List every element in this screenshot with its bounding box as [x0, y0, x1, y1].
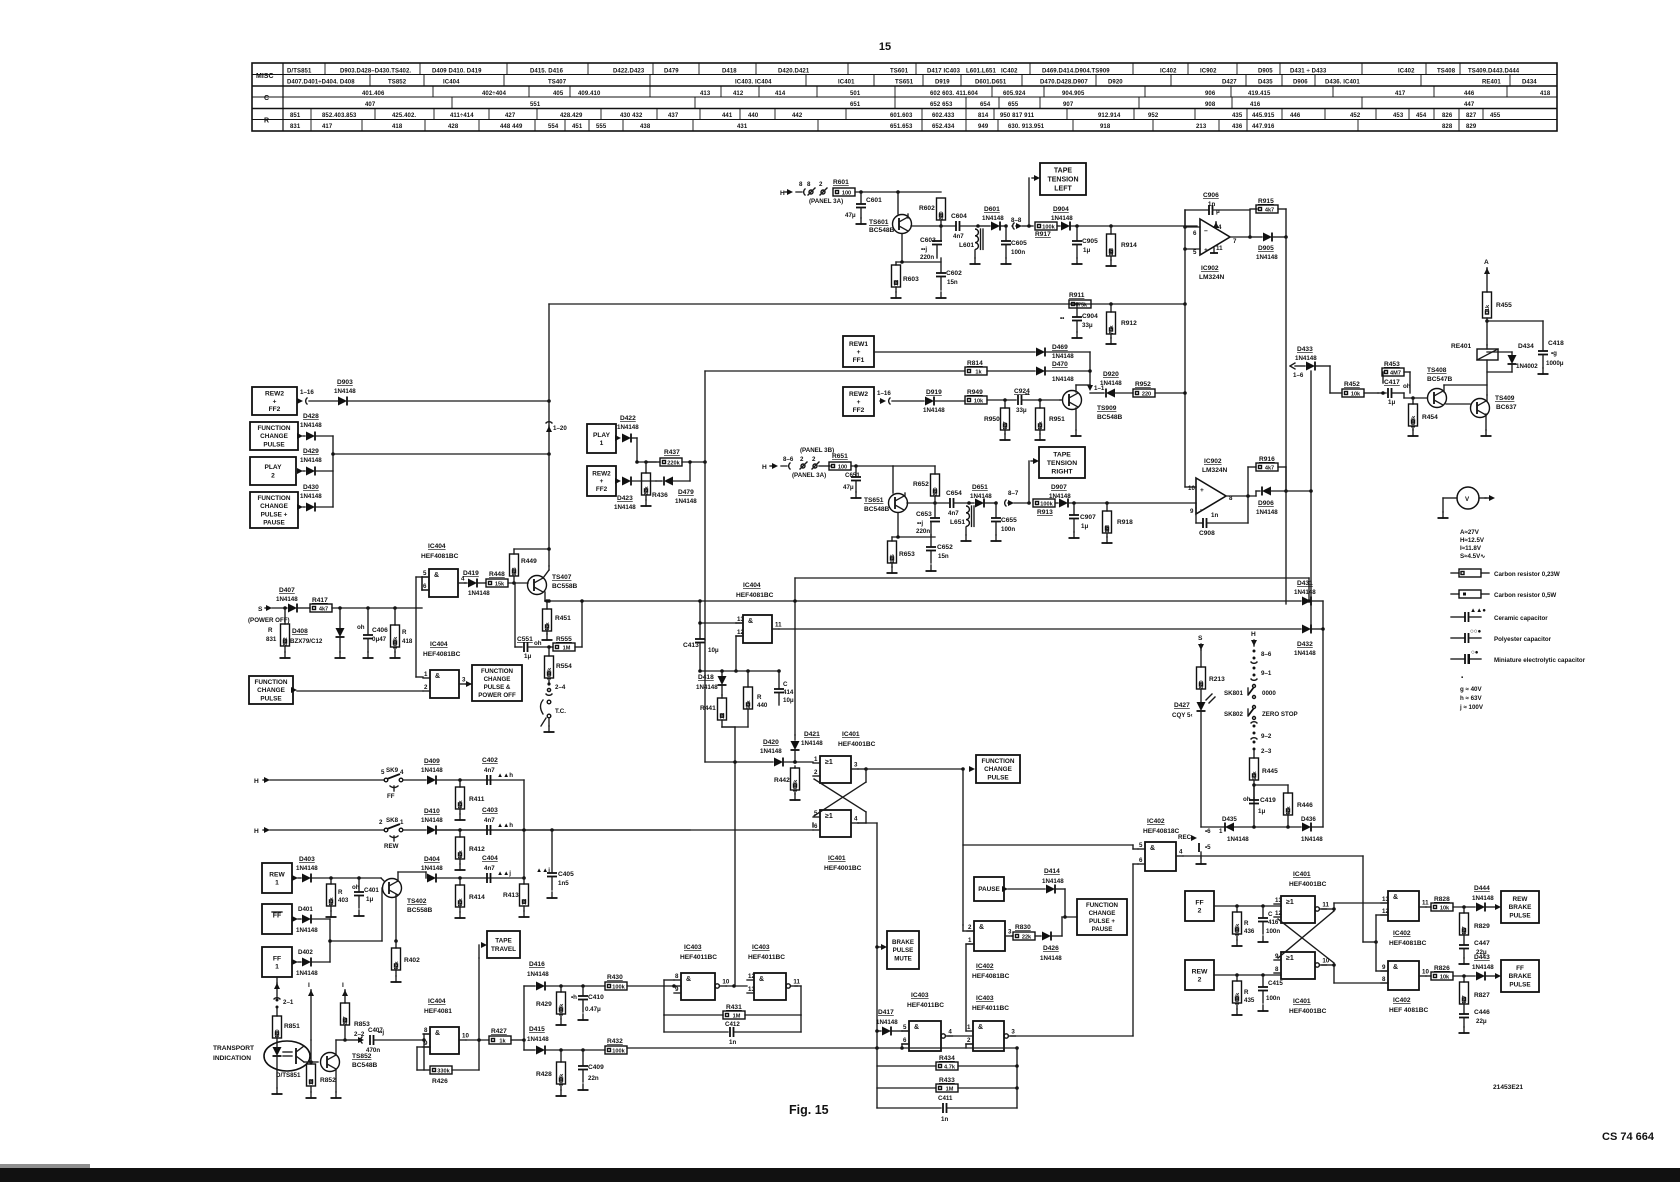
svg-text:R916: R916 — [1259, 456, 1275, 463]
resistor R555 1M — [549, 646, 553, 648]
svg-text:401.406: 401.406 — [362, 91, 385, 97]
resistor R418 100k — [393, 606, 397, 610]
svg-text:416: 416 — [1268, 919, 1279, 926]
resistor R652 220 — [931, 474, 940, 497]
svg-text:CHANGE: CHANGE — [260, 433, 288, 440]
svg-text:D407: D407 — [279, 587, 295, 594]
svg-text:BC548B: BC548B — [864, 506, 890, 513]
svg-text:TS407: TS407 — [552, 574, 572, 581]
svg-text:1M: 1M — [733, 1013, 741, 1019]
svg-text:446: 446 — [1290, 113, 1301, 119]
svg-text:I: I — [308, 982, 310, 989]
diode D410 1N4148 — [427, 826, 436, 835]
wire to tape tension left — [1027, 224, 1031, 228]
svg-text:1M: 1M — [563, 645, 571, 651]
svg-text:1n: 1n — [941, 1116, 948, 1123]
long wire TS407 emitter row — [545, 600, 1301, 602]
svg-text:442: 442 — [792, 113, 803, 119]
svg-text:R949: R949 — [967, 389, 983, 396]
svg-text:D409 D410. D419: D409 D410. D419 — [432, 69, 482, 75]
resistor R412 47k — [458, 828, 462, 832]
resistor R828 10k — [1426, 906, 1431, 908]
svg-text:BRAKE: BRAKE — [1509, 904, 1532, 911]
inductor L651 — [967, 501, 971, 505]
svg-text:1N4148: 1N4148 — [1052, 353, 1074, 360]
capacitor C410 0.47u — [581, 984, 585, 988]
svg-text:R915: R915 — [1258, 198, 1274, 205]
svg-text:22k: 22k — [644, 485, 650, 495]
svg-text:0000: 0000 — [1262, 690, 1276, 697]
svg-text:TENSION: TENSION — [1047, 176, 1078, 183]
svg-text:1: 1 — [814, 756, 818, 763]
svg-text:≥1: ≥1 — [1286, 899, 1294, 906]
diode D431 1N4148 — [1302, 597, 1311, 606]
svg-text:C412: C412 — [725, 1021, 740, 1028]
wire op-amp1 inputs — [1185, 226, 1200, 228]
svg-text:+: + — [857, 349, 861, 356]
diode D428 1N4148 — [303, 435, 305, 437]
svg-text:2: 2 — [800, 456, 804, 463]
svg-text:IC402: IC402 — [1160, 69, 1177, 75]
wire D906 to bus — [1286, 490, 1311, 492]
svg-text:IC402: IC402 — [1393, 997, 1411, 1004]
svg-text:5: 5 — [903, 1024, 907, 1031]
svg-text:418: 418 — [392, 124, 403, 130]
box FF 1 — [262, 947, 292, 977]
resistor R651 100 — [829, 462, 851, 470]
wire TS601 collector row — [907, 214, 909, 218]
box FUNCTION CHANGE PULSE + PAUSE small — [1077, 899, 1127, 935]
svg-text:•h: •h — [571, 994, 577, 1001]
svg-text:CQY 5‹: CQY 5‹ — [1172, 712, 1193, 719]
svg-text:BC548B: BC548B — [1097, 414, 1123, 421]
svg-text:oh: oh — [534, 640, 542, 647]
legend ceramic capacitor — [1451, 607, 1486, 622]
svg-text:R213: R213 — [1209, 676, 1225, 683]
svg-text:10: 10 — [1422, 969, 1429, 976]
svg-text:R412: R412 — [469, 846, 485, 853]
resistor R428 100k — [559, 1048, 563, 1052]
diode D415 1N4148 — [524, 1049, 535, 1051]
svg-text:22n: 22n — [588, 1075, 599, 1082]
svg-text:1N4148: 1N4148 — [527, 971, 549, 978]
svg-text:CHANGE: CHANGE — [1089, 910, 1116, 917]
svg-text:SK801: SK801 — [1224, 690, 1243, 697]
svg-text:REW: REW — [1192, 968, 1208, 975]
wire long row y827 to latch pin6 — [437, 829, 813, 831]
svg-text:75k: 75k — [1078, 302, 1088, 308]
svg-text:47k: 47k — [458, 849, 464, 859]
resistor R601 — [833, 188, 855, 196]
svg-text:≥1: ≥1 — [825, 813, 833, 820]
svg-text:H: H — [780, 190, 785, 197]
svg-text:C602: C602 — [946, 270, 962, 277]
resistor R213 220 — [1197, 667, 1206, 690]
capacitor C601 47u — [860, 192, 862, 203]
svg-text:2–2: 2–2 — [354, 1031, 365, 1038]
svg-text:906: 906 — [1205, 91, 1216, 97]
svg-text:HEF4011BC: HEF4011BC — [907, 1002, 944, 1009]
wire between gates + top vertical — [726, 985, 747, 987]
capacitor C904 33u — [1075, 302, 1079, 306]
svg-text:D429: D429 — [303, 448, 319, 455]
svg-text:TS408: TS408 — [1427, 367, 1447, 374]
svg-text:IC403: IC403 — [684, 944, 702, 951]
capacitor C414 10u — [778, 671, 780, 688]
svg-text:1N4148: 1N4148 — [296, 865, 318, 872]
svg-text:LEFT: LEFT — [1054, 185, 1072, 192]
capacitor C412 1n — [663, 1015, 665, 1032]
svg-text:47k: 47k — [545, 621, 551, 631]
svg-text:D415. D416: D415. D416 — [530, 69, 564, 75]
svg-text:1M: 1M — [1105, 525, 1111, 533]
svg-text:REW: REW — [384, 843, 399, 850]
svg-text:oh: oh — [1243, 796, 1251, 803]
box FUNCTION CHANGE PULSE bottom-left — [249, 676, 293, 704]
svg-text:1–16: 1–16 — [877, 390, 891, 397]
diode D421 1N4148 — [794, 735, 796, 740]
svg-text:C603: C603 — [920, 237, 936, 244]
wire gate out to right — [1183, 855, 1363, 857]
svg-text:1N4148: 1N4148 — [1040, 955, 1062, 962]
wire to C418 — [1487, 320, 1543, 322]
svg-text:C908: C908 — [1199, 530, 1215, 537]
svg-text:h ≈ 63V: h ≈ 63V — [1460, 695, 1482, 702]
svg-text:D410: D410 — [424, 808, 440, 815]
wire junction column — [637, 461, 656, 463]
svg-text:(PANEL 3A): (PANEL 3A) — [792, 472, 826, 479]
svg-text:R436: R436 — [652, 492, 668, 499]
svg-text:R554: R554 — [556, 663, 572, 670]
svg-text:D906: D906 — [1293, 80, 1308, 86]
svg-text:D431 ÷ D433: D431 ÷ D433 — [1290, 69, 1327, 75]
svg-text:1: 1 — [1219, 828, 1223, 835]
svg-text:R417: R417 — [312, 597, 328, 604]
svg-text:REW2: REW2 — [849, 391, 868, 398]
svg-text:C415: C415 — [1268, 980, 1283, 987]
svg-text:100k: 100k — [1040, 501, 1053, 507]
svg-text:D904: D904 — [1053, 206, 1069, 213]
svg-text:2: 2 — [1198, 976, 1202, 983]
box TAPE TENSION RIGHT — [1039, 447, 1085, 478]
svg-text:TS601: TS601 — [869, 219, 889, 226]
resistor R949 10k — [965, 396, 987, 404]
resistor R952 220 — [1133, 389, 1155, 397]
transistor TS909 BC548B — [1063, 391, 1082, 410]
svg-text:551: 551 — [530, 102, 541, 108]
svg-text:FUNCTION: FUNCTION — [1086, 902, 1118, 909]
svg-text:LM324N: LM324N — [1202, 467, 1228, 474]
svg-text:RE401: RE401 — [1451, 343, 1471, 350]
svg-text:D419: D419 — [463, 570, 479, 577]
capacitor C655 100n — [994, 501, 998, 505]
svg-text:TS408: TS408 — [1437, 69, 1456, 75]
svg-text:S≈4.5V∿: S≈4.5V∿ — [1460, 553, 1485, 560]
svg-text:9–2: 9–2 — [1261, 733, 1272, 740]
capacitor C418 1000u electrolytic — [1538, 351, 1548, 355]
svg-text:D415: D415 — [529, 1026, 545, 1033]
box REW BRAKE PULSE — [1501, 891, 1539, 923]
diode D422 1N4148 — [622, 434, 631, 443]
bottom black bar — [0, 1168, 1680, 1182]
svg-text:1N4148: 1N4148 — [1301, 836, 1323, 843]
svg-text:33μ: 33μ — [1016, 407, 1027, 414]
svg-text:TS601: TS601 — [890, 69, 909, 75]
diode D903 1N4148 — [338, 397, 347, 406]
svg-text:1N4148: 1N4148 — [296, 970, 318, 977]
svg-text:3: 3 — [462, 677, 466, 684]
svg-text:R602: R602 — [919, 205, 935, 212]
svg-text:μ: μ — [1216, 208, 1220, 215]
svg-text:R914: R914 — [1121, 242, 1137, 249]
svg-text:4k7: 4k7 — [1462, 995, 1468, 1004]
capacitor C413 10u — [699, 601, 701, 638]
svg-text:HEF 4081BC: HEF 4081BC — [1389, 1007, 1428, 1014]
resistor R445 56k — [1250, 758, 1259, 781]
svg-text:R454: R454 — [1422, 414, 1438, 421]
resistor R429 100k — [559, 984, 563, 988]
svg-text:1N4148: 1N4148 — [300, 493, 322, 500]
capacitor C416 100n — [1261, 904, 1265, 908]
svg-text:FF2: FF2 — [269, 406, 281, 413]
svg-text:R913: R913 — [1037, 509, 1053, 516]
svg-text:R453: R453 — [1384, 361, 1400, 368]
diode D430 1N4148 — [303, 506, 305, 508]
capacitor C653 220n — [934, 503, 936, 517]
svg-text:REC: REC — [1178, 834, 1192, 841]
diode D435 1N4148 — [1225, 823, 1234, 832]
svg-text:BC637: BC637 — [1496, 404, 1517, 411]
op-amp U IC902a LM324N — [1200, 219, 1230, 255]
svg-text:FF2: FF2 — [853, 407, 865, 414]
wire top long row y578 — [795, 577, 1309, 579]
svg-text:R446: R446 — [1297, 802, 1313, 809]
wire op-amp2 output — [1226, 495, 1256, 497]
wire to TS909 base — [1089, 352, 1091, 385]
svg-text:D/TS851: D/TS851 — [287, 69, 312, 75]
svg-text:4k7: 4k7 — [319, 606, 328, 612]
svg-text:9: 9 — [1190, 508, 1194, 515]
svg-text:INDICATION: INDICATION — [213, 1055, 251, 1062]
svg-text:100k: 100k — [1235, 992, 1241, 1005]
svg-text:D418: D418 — [698, 674, 714, 681]
svg-text:C906: C906 — [1203, 192, 1219, 199]
svg-text:IC402: IC402 — [976, 963, 994, 970]
diode D907 1N4148 — [1055, 502, 1058, 504]
svg-text:D418: D418 — [722, 69, 737, 75]
svg-text:D/TS851: D/TS851 — [276, 1072, 301, 1079]
svg-text:TS651: TS651 — [864, 497, 884, 504]
svg-text:1n: 1n — [1211, 512, 1218, 519]
inductor L601 — [976, 224, 980, 228]
svg-text:1: 1 — [400, 819, 404, 826]
svg-text:CS 74 664: CS 74 664 — [1602, 1131, 1655, 1143]
vertical from FCP junction down — [962, 769, 964, 925]
svg-text:C604: C604 — [951, 213, 967, 220]
svg-text:(PANEL 3A): (PANEL 3A) — [809, 198, 843, 205]
svg-text:REW: REW — [269, 871, 285, 878]
wire to D420 row — [734, 727, 736, 762]
svg-text:440: 440 — [748, 113, 759, 119]
svg-text:220k: 220k — [667, 460, 680, 466]
svg-text:100k: 100k — [612, 984, 625, 990]
svg-text:L601.L651: L601.L651 — [966, 69, 996, 75]
svg-text:330k: 330k — [437, 1068, 450, 1074]
svg-text:▲▲h: ▲▲h — [497, 772, 513, 779]
svg-text:9: 9 — [675, 986, 679, 993]
svg-text:FF: FF — [1195, 899, 1203, 906]
vertical x877 — [858, 822, 877, 824]
svg-text:IC403. IC404: IC403. IC404 — [735, 80, 772, 86]
svg-text:949: 949 — [978, 124, 989, 130]
capacitor C924 33u — [1018, 395, 1022, 405]
box PAUSE — [974, 877, 1004, 901]
svg-text:950 817 911: 950 817 911 — [1000, 113, 1035, 119]
box FUNCTION CHANGE PULSE & POWER OFF — [472, 665, 522, 701]
svg-text:••: •• — [1025, 391, 1029, 398]
svg-text:&: & — [979, 924, 984, 931]
svg-text:12: 12 — [1382, 908, 1389, 915]
svg-text:R603: R603 — [903, 276, 919, 283]
svg-text:TS909: TS909 — [1097, 405, 1117, 412]
svg-text:D427: D427 — [1174, 702, 1190, 709]
svg-text:1N4148: 1N4148 — [1294, 589, 1316, 596]
svg-text:D906: D906 — [1258, 500, 1274, 507]
svg-text:220: 220 — [939, 211, 945, 220]
svg-text:D409: D409 — [424, 758, 440, 765]
svg-text:5: 5 — [423, 570, 427, 577]
svg-text:HEF4001BC: HEF4001BC — [1289, 881, 1327, 888]
diode D402 1N4148 — [298, 961, 301, 963]
svg-text:1N4148: 1N4148 — [1042, 878, 1064, 885]
svg-text:56k: 56k — [746, 699, 752, 709]
svg-text:554: 554 — [548, 124, 559, 130]
svg-text:IC402: IC402 — [1147, 818, 1165, 825]
resistor R951 47k — [1038, 398, 1042, 402]
resistor R432 100k — [605, 1046, 627, 1054]
svg-text:j ≈ 100V: j ≈ 100V — [1459, 704, 1484, 711]
resistor R440 56k — [747, 671, 749, 687]
svg-text:HEF4001BC: HEF4001BC — [838, 741, 876, 748]
svg-text:D435: D435 — [1222, 816, 1237, 823]
wire to tape tension right — [1027, 501, 1031, 505]
svg-text:Carbon resistor 0,23W: Carbon resistor 0,23W — [1494, 571, 1560, 578]
svg-text:R: R — [338, 889, 343, 896]
svg-text:918: 918 — [1100, 124, 1111, 130]
svg-text:453: 453 — [1393, 113, 1404, 119]
svg-text:1N4148: 1N4148 — [1294, 650, 1316, 657]
svg-text:R449: R449 — [521, 558, 537, 565]
svg-text:D428: D428 — [303, 413, 319, 420]
svg-text:1: 1 — [967, 1024, 971, 1031]
latch cross coupling right — [1322, 908, 1334, 910]
svg-text:••: •• — [1060, 315, 1064, 322]
svg-text:−: − — [1204, 228, 1208, 235]
svg-text:1N4148: 1N4148 — [801, 740, 823, 747]
box REW1+FF1 — [843, 336, 874, 367]
svg-text:R411: R411 — [469, 796, 485, 803]
diode D403 1N4148 — [302, 874, 311, 883]
svg-text:47k: 47k — [1286, 805, 1292, 815]
svg-text:&: & — [1393, 964, 1398, 971]
diode D418 1N4148 — [721, 671, 723, 676]
svg-text:R: R — [1244, 920, 1249, 927]
svg-text:IC403: IC403 — [911, 992, 929, 999]
wire — [855, 191, 941, 193]
svg-text:C446: C446 — [1474, 1009, 1490, 1016]
svg-text:1M: 1M — [946, 1086, 954, 1092]
resistor R454 — [1404, 397, 1427, 399]
svg-text:437: 437 — [668, 113, 679, 119]
svg-text:H≈12.5V: H≈12.5V — [1460, 537, 1485, 544]
svg-text:SK802: SK802 — [1224, 711, 1243, 718]
svg-text:8: 8 — [1382, 976, 1386, 983]
svg-text:1N4148: 1N4148 — [1049, 493, 1071, 500]
svg-text:1k: 1k — [1485, 304, 1491, 311]
box REW2+FF2 left — [252, 387, 297, 415]
svg-text:409.410: 409.410 — [578, 91, 601, 97]
svg-text:I≈11.8V: I≈11.8V — [1460, 545, 1482, 552]
svg-text:IC404: IC404 — [428, 998, 446, 1005]
svg-text:652 653: 652 653 — [930, 102, 953, 108]
svg-text:1N4148: 1N4148 — [614, 504, 636, 511]
svg-text:10k: 10k — [1351, 391, 1361, 397]
transistor TS402 BC558B — [383, 879, 402, 898]
svg-text:428.429: 428.429 — [560, 113, 583, 119]
svg-text:11: 11 — [1216, 245, 1223, 252]
svg-text:13: 13 — [1382, 896, 1389, 903]
svg-text:1N4148: 1N4148 — [675, 498, 697, 505]
svg-text:L651: L651 — [950, 519, 965, 526]
svg-text:HEF4001BC: HEF4001BC — [1289, 1008, 1327, 1015]
svg-text:441: 441 — [722, 113, 733, 119]
svg-text:4: 4 — [948, 1029, 952, 1036]
svg-text:R437: R437 — [664, 449, 680, 456]
svg-text:C907: C907 — [1080, 514, 1096, 521]
svg-text:+: + — [600, 478, 604, 485]
svg-text:4n7: 4n7 — [948, 510, 959, 517]
svg-text:100k: 100k — [793, 779, 799, 792]
svg-text:oh: oh — [352, 884, 360, 891]
capacitor C905 1u — [1075, 224, 1079, 228]
box REW2+FF2 mid-left — [587, 466, 616, 496]
svg-text:1N4148: 1N4148 — [421, 817, 443, 824]
svg-text:C654: C654 — [946, 490, 962, 497]
svg-text:10k: 10k — [974, 398, 984, 404]
svg-text:425.402.: 425.402. — [392, 113, 416, 119]
svg-text:R452: R452 — [1344, 381, 1360, 388]
svg-text:1μ: 1μ — [524, 653, 531, 660]
svg-text:1M: 1M — [1109, 248, 1115, 256]
op-amp U IC902b LM324N — [1196, 478, 1226, 514]
svg-text:IC401: IC401 — [838, 80, 855, 86]
svg-text:R830: R830 — [1015, 924, 1031, 931]
svg-text:655: 655 — [1008, 102, 1019, 108]
resistor R433 1M — [877, 1087, 936, 1089]
svg-text:454: 454 — [1416, 113, 1427, 119]
svg-text:&: & — [686, 976, 691, 983]
svg-text:&: & — [435, 673, 440, 680]
svg-text:605.924: 605.924 — [1003, 91, 1026, 97]
capacitor C403 4n7 — [487, 825, 491, 835]
svg-text:417: 417 — [1395, 91, 1406, 97]
svg-text:C419: C419 — [1260, 797, 1276, 804]
svg-text:8: 8 — [424, 1027, 428, 1034]
svg-text:PULSE +: PULSE + — [261, 511, 288, 518]
svg-text:CHANGE: CHANGE — [260, 503, 288, 510]
svg-text:D905: D905 — [1258, 69, 1273, 75]
resistor R653 1k5 — [897, 513, 899, 537]
